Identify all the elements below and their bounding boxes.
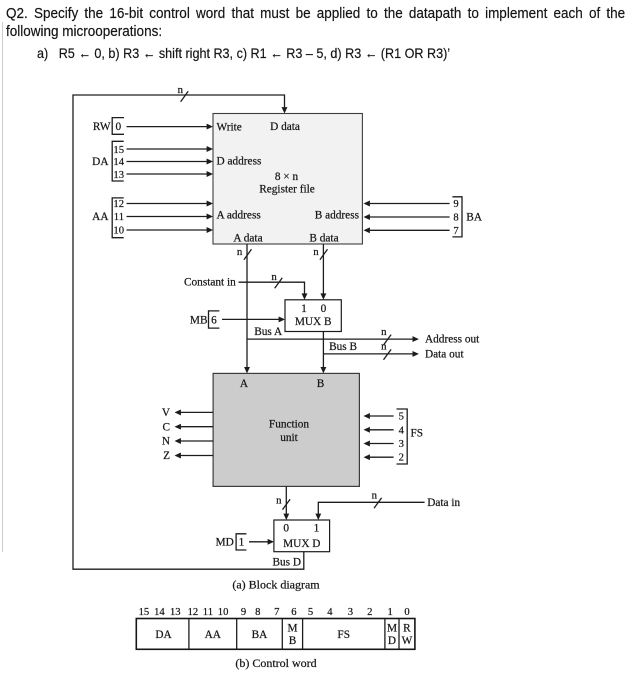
svg-text:W: W xyxy=(402,635,413,647)
svg-text:Constant in: Constant in xyxy=(184,276,236,288)
svg-text:D: D xyxy=(388,635,396,647)
wire: Bus B to Data out xyxy=(323,341,464,360)
svg-text:0: 0 xyxy=(283,522,289,534)
svg-text:8 × n: 8 × n xyxy=(275,171,299,183)
wire: Bus A to Address out xyxy=(247,326,480,345)
status output N xyxy=(162,436,213,448)
svg-text:unit: unit xyxy=(280,432,298,444)
wire: A data bus from register file to function unit xyxy=(244,244,250,373)
svg-text:1: 1 xyxy=(301,303,307,315)
svg-text:1: 1 xyxy=(314,522,320,534)
svg-text:B: B xyxy=(289,635,297,647)
Data in input to MUX D input 1 xyxy=(315,497,460,520)
svg-text:FS: FS xyxy=(411,428,424,440)
svg-text:15: 15 xyxy=(113,145,124,156)
svg-text:Z: Z xyxy=(163,450,170,462)
Constant in input to MUX B input 1 xyxy=(184,276,307,300)
wire: Bus D feedback loop from MUX D output to register file D data xyxy=(73,95,304,569)
svg-text:9: 9 xyxy=(241,607,246,618)
DA control bits 15-13 input xyxy=(92,141,213,181)
svg-text:Register file: Register file xyxy=(259,184,315,196)
wire: MUX B output to function unit B input xyxy=(320,332,326,374)
net label Bus D xyxy=(272,557,301,569)
svg-text:0: 0 xyxy=(321,303,327,315)
svg-text:n: n xyxy=(381,326,387,338)
svg-text:n: n xyxy=(271,271,277,283)
svg-text:D data: D data xyxy=(270,121,300,133)
n slash on feedback wire xyxy=(178,84,189,102)
svg-text:8: 8 xyxy=(453,213,458,224)
svg-text:4: 4 xyxy=(399,425,405,436)
control word field MB xyxy=(287,623,297,648)
svg-text:MUX D: MUX D xyxy=(283,538,320,550)
svg-text:13: 13 xyxy=(113,170,124,181)
AA control bits 12-10 input xyxy=(92,198,213,238)
svg-text:D address: D address xyxy=(217,156,262,168)
svg-text:n: n xyxy=(381,341,387,353)
control word field MD xyxy=(387,623,397,648)
n slash on Constant in xyxy=(271,271,282,288)
n slash on B data xyxy=(313,246,327,260)
svg-text:6: 6 xyxy=(211,314,217,326)
svg-text:Function: Function xyxy=(269,419,310,431)
n slash on Data in xyxy=(372,489,382,508)
svg-text:1: 1 xyxy=(239,537,245,549)
svg-text:0: 0 xyxy=(404,607,409,618)
svg-text:Data out: Data out xyxy=(425,348,464,360)
status output V xyxy=(162,407,213,419)
svg-text:B address: B address xyxy=(315,210,359,222)
svg-text:Write: Write xyxy=(217,122,242,134)
svg-text:n: n xyxy=(372,489,378,501)
svg-text:3: 3 xyxy=(348,607,353,618)
svg-text:N: N xyxy=(162,436,170,448)
register file U1 xyxy=(213,114,362,245)
MB control bit 6 input xyxy=(190,311,285,328)
svg-text:MB: MB xyxy=(190,314,208,326)
svg-text:(b) Control word: (b) Control word xyxy=(235,656,316,670)
svg-text:14: 14 xyxy=(154,607,165,618)
svg-text:12: 12 xyxy=(188,607,199,618)
svg-text:V: V xyxy=(162,407,171,419)
svg-text:A: A xyxy=(240,378,249,390)
svg-text:B data: B data xyxy=(309,233,338,245)
n slash on Bus B xyxy=(381,341,391,360)
svg-text:AA: AA xyxy=(92,211,109,223)
svg-text:5: 5 xyxy=(399,412,404,423)
FS control bits 5-2 input xyxy=(364,409,424,464)
svg-text:5: 5 xyxy=(308,607,313,618)
svg-text:8: 8 xyxy=(255,607,260,618)
svg-text:R: R xyxy=(403,623,411,635)
svg-text:C: C xyxy=(162,421,170,433)
svg-text:n: n xyxy=(237,246,243,258)
function unit U2 xyxy=(213,373,359,486)
svg-text:12: 12 xyxy=(113,199,124,210)
svg-text:AA: AA xyxy=(205,629,222,641)
BA control bits 9-7 input xyxy=(364,197,483,237)
svg-text:M: M xyxy=(387,623,397,635)
svg-text:n: n xyxy=(276,495,282,507)
svg-text:10: 10 xyxy=(218,607,229,618)
svg-text:4: 4 xyxy=(327,607,333,618)
svg-text:Address out: Address out xyxy=(425,334,480,346)
svg-text:6: 6 xyxy=(291,607,296,618)
MD control bit 1 input xyxy=(216,534,274,550)
svg-text:n: n xyxy=(178,84,184,96)
svg-text:MD: MD xyxy=(216,537,234,549)
page edge artifact line xyxy=(2,22,4,552)
svg-text:11: 11 xyxy=(114,212,124,223)
question paragraph line 1 xyxy=(6,5,625,23)
svg-text:DA: DA xyxy=(155,629,172,641)
svg-text:FS: FS xyxy=(337,629,350,641)
RW control bit 0 input xyxy=(93,118,213,135)
svg-text:3: 3 xyxy=(399,439,404,450)
svg-text:BA: BA xyxy=(466,212,483,224)
svg-text:2: 2 xyxy=(399,453,404,464)
svg-text:RW: RW xyxy=(93,121,111,133)
svg-text:15: 15 xyxy=(139,607,150,618)
question item a-d xyxy=(37,45,450,61)
wire: function unit output to MUX D input 0 xyxy=(283,486,289,520)
n slash on function unit output xyxy=(276,495,290,510)
svg-text:A address: A address xyxy=(217,210,261,222)
control word field RW xyxy=(402,623,413,648)
svg-text:11: 11 xyxy=(203,607,213,618)
svg-text:MUX B: MUX B xyxy=(295,316,332,328)
svg-text:M: M xyxy=(287,623,297,635)
svg-text:7: 7 xyxy=(453,226,458,237)
svg-text:7: 7 xyxy=(274,607,279,618)
question paragraph line 2 xyxy=(6,23,162,41)
svg-text:Bus D: Bus D xyxy=(272,557,301,569)
control word bit position numbers xyxy=(139,607,410,618)
caption (a) Block diagram xyxy=(232,578,320,592)
svg-text:(a) Block diagram: (a) Block diagram xyxy=(232,578,320,592)
svg-text:Bus A: Bus A xyxy=(254,326,283,338)
svg-text:Data in: Data in xyxy=(427,497,460,509)
n slash on A data xyxy=(237,246,252,260)
svg-text:A data: A data xyxy=(233,233,262,245)
status output C xyxy=(162,421,213,433)
control word table outline xyxy=(136,619,415,650)
wire: B data from register file to MUX B input 0 xyxy=(320,244,326,300)
n slash on Bus A xyxy=(381,326,391,345)
svg-text:n: n xyxy=(313,246,319,258)
svg-text:0: 0 xyxy=(115,121,121,133)
mux MUXB xyxy=(285,300,341,332)
svg-text:BA: BA xyxy=(252,629,269,641)
svg-text:14: 14 xyxy=(113,157,124,168)
svg-text:Bus B: Bus B xyxy=(329,341,357,353)
svg-text:9: 9 xyxy=(453,199,458,210)
svg-text:1: 1 xyxy=(388,607,393,618)
svg-text:B: B xyxy=(317,378,325,390)
svg-text:10: 10 xyxy=(113,226,124,237)
svg-text:DA: DA xyxy=(92,156,109,168)
status output Z xyxy=(163,450,213,462)
svg-text:2: 2 xyxy=(367,607,372,618)
mux MUXD xyxy=(274,520,330,552)
svg-text:13: 13 xyxy=(170,607,181,618)
